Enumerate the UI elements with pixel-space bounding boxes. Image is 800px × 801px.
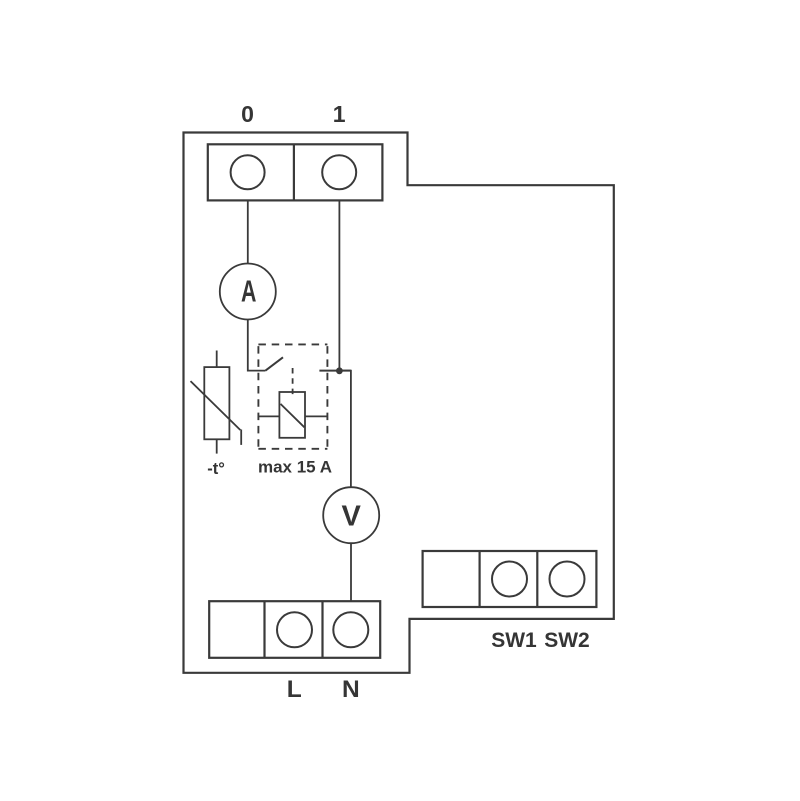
- terminal block top (0/1): [208, 144, 383, 200]
- terminal block bottom (L/N): [209, 601, 380, 658]
- terminal SW2 screw: [550, 562, 585, 597]
- terminal 0 screw: [231, 155, 265, 189]
- terminal N screw: [333, 612, 368, 647]
- relay switch contact: [266, 357, 351, 370]
- wire terminal 1 down to node: [338, 200, 340, 370]
- svg-text:V: V: [342, 501, 362, 533]
- svg-text:A: A: [241, 274, 256, 309]
- thermistor -t°: [191, 351, 242, 454]
- relay dashed box: [258, 344, 327, 448]
- svg-text:SW2: SW2: [544, 629, 590, 652]
- terminal block switch (SW1/SW2): [423, 551, 597, 607]
- svg-text:-t°: -t°: [207, 460, 225, 478]
- wire terminal 0 to ammeter: [247, 200, 249, 263]
- svg-text:1: 1: [333, 101, 346, 127]
- wire node to voltmeter: [339, 371, 351, 488]
- node junction dot: [336, 367, 343, 374]
- terminal SW1 screw: [492, 562, 527, 597]
- ammeter A: [220, 264, 276, 320]
- svg-text:max 15 A: max 15 A: [258, 458, 332, 477]
- voltmeter V: [323, 487, 379, 543]
- relay coil: [258, 392, 327, 438]
- enclosure outline: [184, 133, 614, 673]
- wire ammeter to switch pivot: [248, 320, 266, 371]
- svg-text:0: 0: [241, 101, 254, 127]
- dashed actuator link: [292, 368, 294, 395]
- terminal L screw: [277, 612, 312, 647]
- wire voltmeter to terminal N: [350, 543, 352, 601]
- terminal 1 screw: [322, 155, 356, 189]
- svg-text:SW1: SW1: [491, 629, 537, 652]
- svg-text:L: L: [287, 676, 302, 703]
- svg-text:N: N: [342, 676, 360, 703]
